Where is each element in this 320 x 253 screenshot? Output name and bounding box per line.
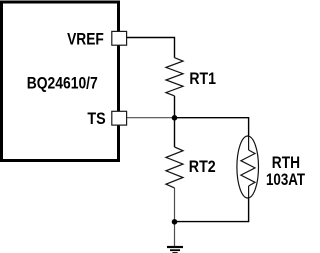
svg-text:RT2: RT2: [189, 158, 216, 176]
node junction TS net: [172, 115, 178, 121]
thermistor RTH internal leads: [248, 137, 250, 197]
wire RT1 bottom to TS net: [174, 96, 176, 118]
svg-text:RTH: RTH: [272, 154, 300, 172]
resistor RT2: [166, 147, 183, 188]
svg-text:103AT: 103AT: [266, 171, 305, 189]
wire ground junction to ground symbol: [174, 222, 176, 247]
svg-text:TS: TS: [87, 110, 105, 128]
svg-text:BQ24610/7: BQ24610/7: [27, 75, 98, 93]
IC BQ24610/7: [2, 2, 119, 161]
thermistor RTH zigzag element: [241, 150, 255, 186]
wire ground junction to thermistor bottom: [175, 197, 249, 222]
wire TS pin to junction: [127, 117, 175, 119]
thermistor RTH ellipse body: [237, 136, 259, 198]
wire VREF pin to RT1 top: [127, 38, 175, 58]
wire junction down to RT2 top: [174, 118, 176, 147]
pin TS square: [112, 111, 127, 125]
pin VREF square: [112, 31, 127, 45]
resistor RT1: [166, 58, 183, 96]
node junction ground net: [172, 219, 178, 225]
wire RT2 bottom to ground junction: [174, 188, 176, 222]
svg-text:VREF: VREF: [67, 31, 104, 49]
svg-text:RT1: RT1: [189, 70, 216, 88]
wire junction to thermistor top: [175, 118, 249, 137]
ground symbol: [167, 247, 183, 253]
